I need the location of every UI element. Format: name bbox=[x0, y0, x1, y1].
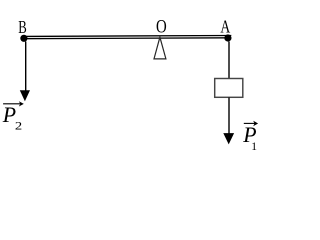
svg-text:A: A bbox=[220, 18, 230, 37]
svg-text:O: O bbox=[156, 16, 167, 37]
fulcrum triangle at O bbox=[154, 37, 166, 59]
svg-text:1: 1 bbox=[251, 141, 257, 153]
vector arrow over P2 bbox=[3, 103, 22, 105]
wire: force P1 lower line from weight down to arrow bbox=[228, 98, 230, 135]
svg-text:B: B bbox=[18, 18, 27, 38]
weight block rectangle at A bbox=[215, 79, 243, 98]
arrowhead of force P1 bbox=[223, 133, 234, 144]
vector arrow over P1 bbox=[244, 122, 256, 124]
node B (pivot dot at left end) bbox=[20, 35, 27, 42]
wire: lever beam bottom line B to A bbox=[23, 37, 231, 40]
svg-text:2: 2 bbox=[15, 119, 22, 132]
wire: lever beam top line B to A bbox=[23, 35, 231, 38]
wire: force P1 upper line from A down to weight bbox=[228, 42, 230, 79]
svg-text:P: P bbox=[2, 103, 16, 127]
wire: force P2 line from B downward bbox=[25, 42, 27, 92]
arrowhead of force P2 bbox=[20, 90, 30, 101]
node A (dot at right end) bbox=[224, 34, 231, 41]
